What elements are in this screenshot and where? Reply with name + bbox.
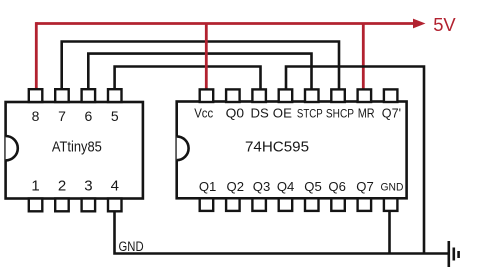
- pin Vcc of U2 (top tab): [200, 89, 214, 102]
- svg-text:5V: 5V: [433, 14, 456, 35]
- pin Q6 of U2 (bottom tab): [331, 198, 345, 211]
- IC U1 ATtiny85 body: [6, 102, 143, 199]
- pin Q3 of U2 (bottom tab): [252, 198, 266, 211]
- wire 74HC595 OE to ground rail (right side): [286, 67, 424, 254]
- pin STCP of U2 (top tab): [305, 89, 319, 102]
- pin OE of U2 (top tab): [279, 89, 293, 102]
- svg-text:Q1: Q1: [199, 179, 217, 194]
- svg-text:Q7': Q7': [382, 105, 401, 120]
- wire 5V rail drop to 74HC595 MR (red): [362, 24, 365, 92]
- svg-text:7: 7: [58, 108, 66, 124]
- wire 5V rail (red horizontal): [36, 22, 414, 25]
- pin Q0 of U2 (top tab): [226, 89, 240, 102]
- svg-text:STCP: STCP: [297, 106, 323, 120]
- wire 74HC595 GND pin to ground rail: [388, 210, 391, 254]
- svg-text:Q4: Q4: [277, 179, 295, 194]
- ground symbol: [449, 241, 459, 267]
- svg-text:5: 5: [111, 108, 119, 124]
- pin 2 of U1 (bottom tab): [55, 199, 68, 212]
- svg-text:Q2: Q2: [227, 179, 245, 194]
- pin Q2 of U2 (bottom tab): [226, 198, 240, 211]
- wire ATtiny85 pin 6 to 74HC595 STCP: [88, 54, 311, 92]
- wire ATtiny85 pin 5 to 74HC595 DS: [115, 67, 261, 92]
- svg-text:OE: OE: [273, 105, 292, 120]
- wire ATtiny85 pin 7 to 74HC595 SHCP: [62, 42, 339, 92]
- svg-text:1: 1: [31, 178, 39, 195]
- wire 5V rail drop to ATtiny85 pin 8 (red): [35, 22, 38, 91]
- pin 8 of U1 (top tab): [29, 89, 43, 102]
- wire ATtiny85 pin 4 to ground rail (bottom): [115, 210, 449, 254]
- svg-text:Vcc: Vcc: [194, 105, 213, 120]
- svg-text:2: 2: [58, 178, 66, 195]
- svg-text:SHCP: SHCP: [326, 106, 354, 120]
- svg-text:ATtiny85: ATtiny85: [52, 138, 102, 155]
- svg-text:Q3: Q3: [253, 179, 271, 194]
- wire 5V rail drop to 74HC595 Vcc (red): [205, 24, 208, 92]
- svg-text:4: 4: [111, 178, 119, 195]
- pin SHCP of U2 (top tab): [331, 89, 345, 102]
- pin 5 of U1 (top tab): [108, 89, 122, 102]
- svg-text:Q7: Q7: [356, 179, 374, 194]
- svg-text:3: 3: [84, 178, 92, 195]
- pin DS of U2 (top tab): [252, 89, 266, 102]
- svg-text:8: 8: [32, 108, 40, 124]
- svg-text:Q6: Q6: [328, 179, 346, 194]
- svg-text:DS: DS: [251, 105, 270, 120]
- svg-text:6: 6: [85, 108, 93, 124]
- arrowhead of 5V rail: [413, 19, 426, 29]
- svg-text:GND: GND: [381, 182, 404, 194]
- svg-text:74HC595: 74HC595: [245, 139, 309, 156]
- pin 6 of U1 (top tab): [82, 89, 96, 102]
- svg-text:Q5: Q5: [304, 179, 322, 194]
- pin 7 of U1 (top tab): [55, 89, 68, 102]
- pin Q5 of U2 (bottom tab): [305, 198, 319, 211]
- svg-text:Q0: Q0: [226, 105, 244, 120]
- pin 3 of U1 (bottom tab): [82, 199, 96, 212]
- IC U2 74HC595 body: [177, 102, 407, 199]
- pin Q7' of U2 (top tab): [384, 89, 398, 102]
- pin GND of U2 (bottom tab): [384, 198, 398, 211]
- pin Q4 of U2 (bottom tab): [279, 198, 293, 211]
- pin 1 of U1 (bottom tab): [29, 199, 43, 212]
- pin Q7 of U2 (bottom tab): [358, 198, 372, 211]
- IC U2 orientation notch: [177, 136, 189, 160]
- pin Q1 of U2 (bottom tab): [200, 198, 214, 211]
- pin 4 of U1 (bottom tab): [108, 199, 122, 212]
- svg-text:MR: MR: [358, 105, 375, 120]
- pin MR of U2 (top tab): [358, 89, 372, 102]
- svg-text:GND: GND: [119, 239, 144, 254]
- IC U1 orientation notch: [6, 136, 18, 160]
